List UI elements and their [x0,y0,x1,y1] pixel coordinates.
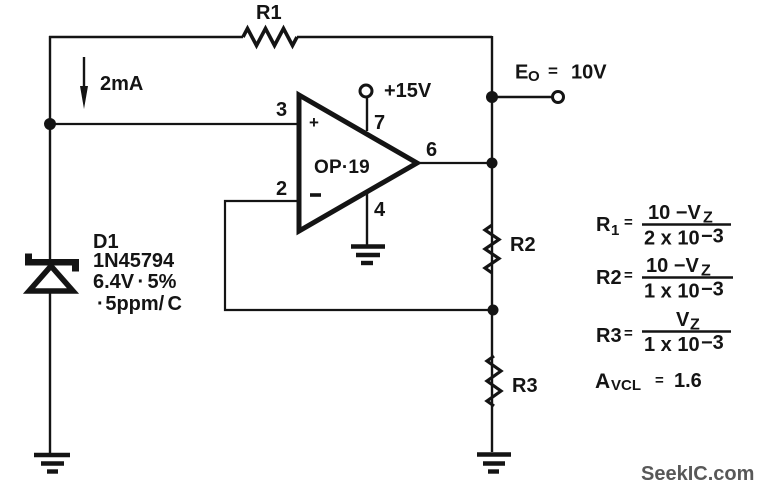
svg-text:· 5ppm/ C: · 5ppm/ C [97,293,182,315]
equation R2 [596,255,733,303]
svg-text:R1: R1 [256,2,282,24]
svg-text:7: 7 [374,112,385,134]
resistor R2 [485,225,499,273]
svg-text:E: E [515,62,528,84]
svg-text:6: 6 [426,139,437,161]
equation R1 [596,202,731,250]
svg-text:V: V [676,309,690,331]
svg-text:−3: −3 [701,279,724,301]
resistor R1 [243,29,297,46]
ground R3 [477,455,511,472]
svg-text:1 x 10: 1 x 10 [644,334,700,356]
node EO tap [486,91,498,103]
svg-text:4: 4 [374,199,386,221]
svg-text:R: R [596,214,611,236]
svg-text:2 x 10: 2 x 10 [644,228,700,250]
wire left vertical lower [49,292,51,453]
svg-text:=: = [548,62,558,81]
current arrow 2mA [83,57,85,90]
svg-text:=: = [624,325,633,342]
svg-text:VCL: VCL [611,377,641,394]
svg-text:R2: R2 [596,267,622,289]
svg-text:2: 2 [276,178,287,200]
svg-text:3: 3 [276,99,287,121]
svg-text:R3: R3 [596,325,622,347]
svg-text:=: = [655,372,664,389]
wire EO tap [492,96,552,98]
wire left vertical upper [49,36,51,260]
svg-text:+15V: +15V [384,80,432,102]
svg-text:=: = [624,214,633,231]
wire feedback [225,201,488,310]
equation R3 [596,309,731,356]
ground op-amp [351,247,385,264]
output terminal EO [553,92,564,103]
svg-text:+: + [309,113,319,132]
power terminal +15V [360,85,372,97]
svg-text:1N45794: 1N45794 [93,250,175,272]
svg-text:R3: R3 [512,375,538,397]
pin 4 wire [366,193,368,245]
svg-text:R2: R2 [510,234,536,256]
svg-text:1: 1 [611,222,619,239]
wire top horizontal right segment [297,36,492,38]
op-amp U1 OP-19 [299,95,417,231]
wire top horizontal left segment [49,36,243,38]
svg-text:10 −V: 10 −V [646,255,699,277]
svg-text:SeekIC.com: SeekIC.com [641,463,754,485]
svg-text:10 −V: 10 −V [648,202,701,224]
ground left [34,455,70,472]
svg-text:2mA: 2mA [100,73,143,95]
pin 7 wire [366,97,368,131]
resistor R3 [487,356,501,406]
svg-text:A: A [595,370,610,393]
svg-text:1.6: 1.6 [674,370,702,392]
zener diode D1 [25,254,79,292]
svg-text:OP·19: OP·19 [314,157,370,178]
node input [44,118,56,130]
svg-text:−3: −3 [701,332,724,354]
svg-text:=: = [624,267,633,284]
svg-text:−3: −3 [701,226,724,248]
op-amp minus input mark [310,193,321,197]
wire right vertical [491,36,493,452]
svg-text:1 x 10: 1 x 10 [644,281,700,303]
svg-text:10V: 10V [571,62,607,84]
node feedback [488,305,499,316]
equation AVCL [595,370,702,394]
svg-text:6.4V · 5%: 6.4V · 5% [93,271,177,293]
wire output [417,162,493,164]
wire noninverting input [50,123,299,125]
svg-text:O: O [528,68,540,85]
node output [487,158,498,169]
